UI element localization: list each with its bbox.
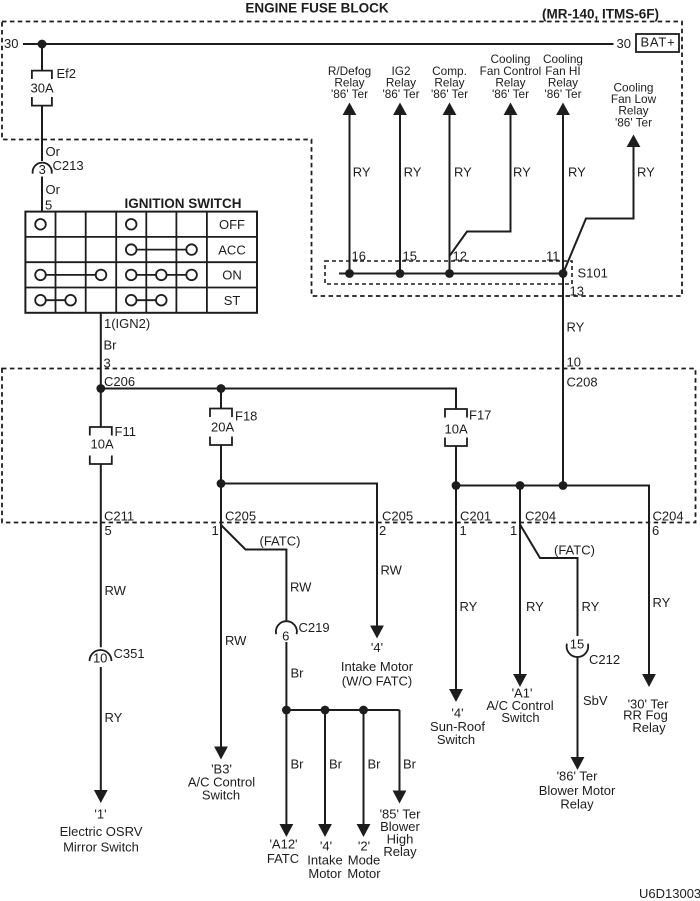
wire Br to A12 FATC xyxy=(285,710,287,824)
svg-text:Motor: Motor xyxy=(347,866,381,881)
svg-text:C201: C201 xyxy=(460,509,491,524)
svg-text:Br: Br xyxy=(368,757,382,772)
wire Ef2 to C213 (Or) xyxy=(41,106,43,161)
fuse F17 10A xyxy=(445,408,492,447)
svg-text:C212: C212 xyxy=(589,652,620,667)
device label 'A1' A/C Control Switch xyxy=(486,686,553,726)
svg-text:C204: C204 xyxy=(653,509,684,524)
svg-text:6: 6 xyxy=(282,629,289,644)
svg-text:RY: RY xyxy=(653,595,671,610)
svg-text:Or: Or xyxy=(46,182,61,197)
svg-text:11: 11 xyxy=(546,249,560,264)
wire C213 to ignition switch (Or) pin 5 xyxy=(41,177,43,212)
svg-text:12: 12 xyxy=(453,249,467,264)
svg-text:ST: ST xyxy=(224,293,241,308)
contacts row ACC xyxy=(126,244,137,255)
svg-text:30A: 30A xyxy=(31,81,54,96)
junction dot node 30 xyxy=(38,40,47,49)
wire RY to IG2 relay xyxy=(399,115,401,274)
arrow to R/Defog relay xyxy=(343,103,357,116)
svg-text:20A: 20A xyxy=(211,420,234,435)
junction pin 15 xyxy=(396,269,405,278)
svg-text:Mirror Switch: Mirror Switch xyxy=(63,840,139,855)
connector C213 pin 3 xyxy=(33,158,84,177)
device label '4' Intake Motor xyxy=(307,839,342,882)
wire 30 bus xyxy=(23,43,614,45)
junction A12 xyxy=(282,706,291,715)
svg-text:10A: 10A xyxy=(445,422,468,437)
arrow to sun-roof switch xyxy=(449,689,463,702)
svg-text:SbV: SbV xyxy=(583,693,608,708)
svg-text:ENGINE FUSE BLOCK: ENGINE FUSE BLOCK xyxy=(245,1,389,16)
wire C219 Br to splice xyxy=(285,642,287,710)
wire RY to Comp. relay xyxy=(449,115,451,274)
wire Br to intake motor xyxy=(324,710,326,824)
arrow to Electric OSRV Mirror Switch xyxy=(94,790,108,803)
svg-text:RY: RY xyxy=(353,165,371,180)
arrow to Cooling Fan Low relay xyxy=(627,135,641,148)
svg-text:FATC: FATC xyxy=(267,851,299,866)
svg-text:RW: RW xyxy=(290,580,312,595)
junction intake xyxy=(321,706,330,715)
svg-text:RY: RY xyxy=(582,599,600,614)
svg-text:C213: C213 xyxy=(53,158,84,173)
svg-text:16: 16 xyxy=(352,249,366,264)
svg-text:Switch: Switch xyxy=(501,710,539,725)
wire RY to R/Defog relay xyxy=(349,115,351,274)
arrow to A1 A/C control switch xyxy=(513,674,527,687)
wire FATC branch from C205 pin 1 xyxy=(221,525,286,621)
fuse block dashed border (stepped) xyxy=(2,22,682,297)
arrow to Cooling Fan Control relay xyxy=(504,103,518,116)
svg-text:'86' Ter: '86' Ter xyxy=(615,115,652,129)
relay label Comp. Relay '86' Ter xyxy=(431,64,468,101)
svg-text:RY: RY xyxy=(460,599,478,614)
svg-text:3: 3 xyxy=(39,162,46,177)
wire to fuse F18 xyxy=(220,389,222,409)
wire F11 to C351 (RW) xyxy=(100,464,102,647)
wire C204 pin1 RY to A1 xyxy=(519,486,521,675)
svg-text:C205: C205 xyxy=(225,509,256,524)
device label '4' Sun-Roof Switch xyxy=(430,706,485,748)
svg-text:IGNITION SWITCH: IGNITION SWITCH xyxy=(125,196,242,211)
svg-text:Br: Br xyxy=(291,757,305,772)
splice bus wire xyxy=(339,273,563,275)
svg-text:Intake Motor: Intake Motor xyxy=(341,659,414,674)
svg-text:OFF: OFF xyxy=(219,217,245,232)
svg-text:(FATC): (FATC) xyxy=(260,534,301,549)
svg-text:Relay: Relay xyxy=(560,797,594,812)
svg-text:3: 3 xyxy=(104,356,111,371)
svg-text:15: 15 xyxy=(570,637,584,652)
fuse Ef2 30A xyxy=(31,66,77,106)
junction pin 12 xyxy=(445,269,454,278)
svg-text:10: 10 xyxy=(93,651,107,666)
device label Electric OSRV Mirror Switch xyxy=(60,807,143,855)
svg-text:1(IGN2): 1(IGN2) xyxy=(104,316,150,331)
svg-text:RY: RY xyxy=(105,710,123,725)
arrow to A12 FATC xyxy=(280,824,294,837)
arrow to IG2 relay xyxy=(393,103,407,116)
wire F18 down to B3 arrow xyxy=(220,445,222,747)
svg-text:1: 1 xyxy=(510,523,517,538)
svg-text:RY: RY xyxy=(404,165,422,180)
svg-text:C206: C206 xyxy=(104,374,135,389)
svg-text:F11: F11 xyxy=(115,424,136,439)
arrow to blower high relay xyxy=(393,791,407,804)
svg-text:13: 13 xyxy=(570,284,584,299)
svg-text:F17: F17 xyxy=(469,408,491,423)
svg-text:'A12': 'A12' xyxy=(269,837,297,852)
wire RY to Cooling Fan Control relay xyxy=(450,115,511,256)
svg-text:Ef2: Ef2 xyxy=(57,66,77,81)
svg-text:(MR-140, ITMS-6F): (MR-140, ITMS-6F) xyxy=(542,7,659,22)
wire pin 13 down to C208 xyxy=(562,274,564,486)
junction pin 11 xyxy=(559,269,568,278)
junction C208 tap xyxy=(559,481,568,490)
svg-text:ACC: ACC xyxy=(218,242,245,257)
device label 'A12' FATC xyxy=(267,837,299,867)
splice bus Br xyxy=(286,709,399,711)
svg-text:Br: Br xyxy=(291,666,305,681)
svg-text:C211: C211 xyxy=(104,509,134,524)
connector C212 pin 15 xyxy=(567,637,620,668)
arrow to blower motor relay xyxy=(571,757,585,770)
wire ignition pin 1(IGN2) Br to C206 xyxy=(100,313,102,389)
ignition switch IGNITION SWITCH xyxy=(25,196,257,313)
junction C206 xyxy=(96,384,105,393)
junction C201 xyxy=(452,481,461,490)
splice S101 dashed box xyxy=(325,261,572,284)
svg-text:C208: C208 xyxy=(567,375,598,390)
svg-text:15: 15 xyxy=(403,249,417,264)
arrow to mode motor xyxy=(357,824,371,837)
svg-text:'86' Ter: '86' Ter xyxy=(492,87,529,101)
wire C212 SbV to blower motor relay xyxy=(577,657,579,757)
wire C201 pin1 RY to sun-roof switch xyxy=(455,486,457,690)
svg-text:1: 1 xyxy=(460,523,467,538)
wire branch to C205 pin 2 xyxy=(221,484,377,626)
svg-text:RW: RW xyxy=(105,583,127,598)
svg-text:2: 2 xyxy=(379,523,386,538)
contacts row OFF xyxy=(35,219,46,230)
svg-text:Switch: Switch xyxy=(202,788,240,803)
svg-text:ON: ON xyxy=(222,268,242,283)
svg-text:C204: C204 xyxy=(525,509,556,524)
svg-text:'86' Ter: '86' Ter xyxy=(557,769,599,784)
svg-text:5: 5 xyxy=(45,198,52,213)
wire to fuse F11 xyxy=(100,389,102,428)
svg-text:C205: C205 xyxy=(382,509,413,524)
wire C351 RY to mirror switch xyxy=(100,667,102,790)
svg-text:'4': '4' xyxy=(371,640,383,655)
svg-text:10: 10 xyxy=(567,355,581,370)
contacts row ST xyxy=(35,295,46,306)
svg-text:'1': '1' xyxy=(94,807,106,822)
svg-text:RY: RY xyxy=(513,165,531,180)
contacts row ON xyxy=(35,270,46,281)
svg-text:'86' Ter: '86' Ter xyxy=(331,87,368,101)
svg-text:5: 5 xyxy=(105,523,112,538)
svg-text:1: 1 xyxy=(212,523,219,538)
junction C204 pin 1 xyxy=(516,481,525,490)
svg-text:C351: C351 xyxy=(114,646,145,661)
svg-text:RY: RY xyxy=(526,599,544,614)
svg-text:Or: Or xyxy=(46,144,61,159)
fuse F11 10A xyxy=(90,424,136,464)
svg-text:RY: RY xyxy=(637,165,655,180)
wire RY to Cooling Fan HI relay xyxy=(562,115,564,274)
wire fuse feed bus xyxy=(101,389,456,410)
svg-text:'86' Ter: '86' Ter xyxy=(431,87,468,101)
junction pin 16 xyxy=(345,269,354,278)
arrow to B3 A/C Control Switch xyxy=(214,747,228,760)
svg-text:10A: 10A xyxy=(91,437,114,452)
arrow to Cooling Fan HI relay xyxy=(556,103,570,116)
svg-text:Br: Br xyxy=(403,757,417,772)
wire bus2 xyxy=(456,486,649,675)
svg-text:BAT+: BAT+ xyxy=(640,35,675,50)
svg-text:'86' Ter: '86' Ter xyxy=(382,87,419,101)
svg-text:Relay: Relay xyxy=(632,720,666,735)
wire Br to mode motor xyxy=(363,710,365,824)
relay label R/Defog Relay '86' Ter xyxy=(328,64,371,101)
svg-text:C219: C219 xyxy=(299,620,330,635)
svg-text:Motor: Motor xyxy=(308,866,342,881)
device label '85' Ter Blower High Relay xyxy=(380,807,422,860)
svg-text:U6D13003: U6D13003 xyxy=(639,886,700,901)
device label '4' Intake Motor (W/O FATC) xyxy=(341,640,414,689)
connector C219 pin 6 xyxy=(276,620,330,644)
svg-text:30: 30 xyxy=(4,36,18,51)
device label 'B3' A/C Control Switch xyxy=(188,762,255,803)
wire Br to blower high relay xyxy=(399,710,401,791)
wire F17 to bus2 xyxy=(455,446,457,486)
wire 30 to fuse Ef2 xyxy=(41,44,43,71)
fuse F18 20A xyxy=(210,409,257,446)
svg-text:S101: S101 xyxy=(578,266,608,281)
svg-text:RW: RW xyxy=(381,563,403,578)
svg-text:6: 6 xyxy=(652,523,659,538)
svg-text:Relay: Relay xyxy=(383,844,417,859)
svg-text:RY: RY xyxy=(567,320,585,335)
svg-text:'86' Ter: '86' Ter xyxy=(544,87,581,101)
svg-text:30: 30 xyxy=(617,36,631,51)
svg-text:(W/O FATC): (W/O FATC) xyxy=(342,674,413,689)
relay label Cooling Fan HI Relay '86' Ter xyxy=(543,52,583,101)
svg-text:RW: RW xyxy=(225,633,247,648)
BAT+ terminal xyxy=(636,34,679,52)
fuse/relay box dashed border (middle) xyxy=(2,369,696,523)
arrow to Comp. relay xyxy=(443,103,457,116)
svg-text:Switch: Switch xyxy=(437,732,475,747)
svg-text:'2': '2' xyxy=(358,839,370,854)
device label '86' Ter Blower Motor Relay xyxy=(539,769,616,812)
device label '30' Ter RR Fog Relay xyxy=(623,697,669,736)
svg-text:'4': '4' xyxy=(320,839,332,854)
svg-text:Br: Br xyxy=(329,757,343,772)
arrow to intake motor xyxy=(318,824,332,837)
connector C351 pin 10 xyxy=(90,646,145,666)
relay label IG2 Relay '86' Ter xyxy=(382,64,419,101)
junction mode xyxy=(359,706,368,715)
junction F18 branch xyxy=(217,479,226,488)
svg-text:Electric OSRV: Electric OSRV xyxy=(60,824,143,839)
wire RY to Cooling Fan Low relay xyxy=(563,147,634,274)
arrow to RR fog relay xyxy=(642,674,656,687)
junction F18 tap xyxy=(217,384,226,393)
svg-text:(FATC): (FATC) xyxy=(554,543,595,558)
svg-text:RY: RY xyxy=(454,165,472,180)
device label '2' Mode Motor xyxy=(347,839,381,882)
svg-text:RY: RY xyxy=(568,165,586,180)
arrow to intake motor W/O FATC xyxy=(370,626,384,639)
svg-text:F18: F18 xyxy=(235,409,257,424)
relay label Cooling Fan Control Relay '86' Ter xyxy=(480,52,542,101)
relay label Cooling Fan Low Relay '86' Ter xyxy=(611,80,657,129)
wire FATC branch from C204 pin 1 xyxy=(520,525,578,637)
svg-text:Br: Br xyxy=(104,338,118,353)
